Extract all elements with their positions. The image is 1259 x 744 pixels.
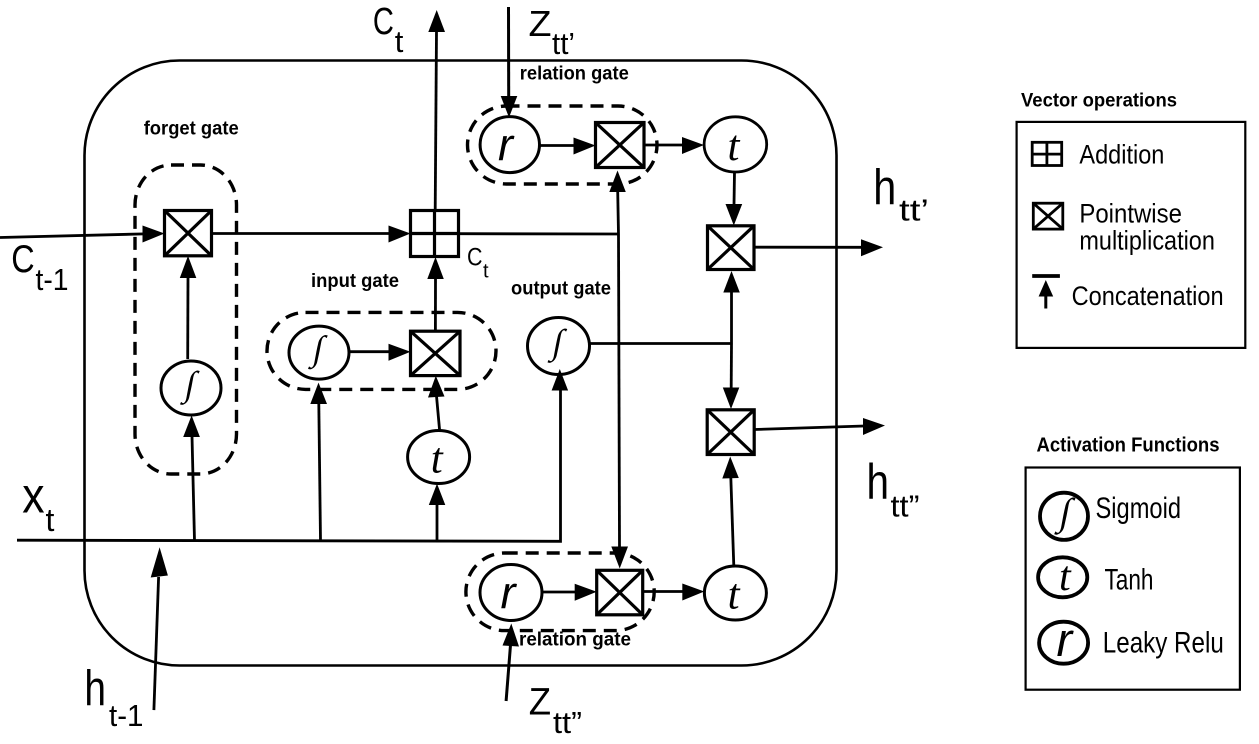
svg-text:tt”: tt” [553, 705, 582, 740]
svg-text:t: t [46, 502, 55, 538]
svg-text:r: r [498, 119, 515, 170]
wire c(t-1) input [0, 226, 165, 243]
svg-text:tt”: tt” [891, 489, 920, 524]
wire xt to input-sigmoid [310, 383, 327, 541]
leaky relu circle r2 [480, 565, 542, 621]
wire h-mult2 output [754, 418, 885, 435]
svg-text:output gate: output gate [511, 278, 611, 299]
svg-text:t-1: t-1 [109, 698, 144, 733]
svg-text:Leaky Relu: Leaky Relu [1103, 627, 1224, 660]
wire output sigmoid to right vertical [590, 342, 732, 345]
wire adder to node junction [459, 232, 619, 235]
input sigmoid circle [289, 326, 349, 379]
relation gate 2 dashed capsule [466, 553, 654, 631]
cell border [85, 61, 837, 666]
svg-text:tt’: tt’ [899, 193, 929, 228]
input gate multiplier [411, 331, 461, 375]
tanh circle input branch [408, 431, 470, 484]
adder node [411, 211, 459, 257]
svg-text:Z: Z [529, 3, 552, 44]
wire h-mult1 output [754, 239, 883, 256]
svg-text:r: r [501, 567, 518, 618]
legend pointwise icon [1033, 203, 1063, 229]
svg-text:t: t [395, 24, 404, 59]
svg-text:t: t [728, 572, 741, 619]
wire sigmoid to forget-mult [180, 256, 197, 359]
output sigmoid circle [528, 318, 590, 375]
svg-text:Vector operations: Vector operations [1021, 90, 1177, 112]
svg-text:multiplication: multiplication [1079, 225, 1215, 255]
leaky relu circle r1 [480, 117, 539, 173]
svg-text:tt’: tt’ [552, 26, 575, 61]
svg-text:h: h [873, 160, 896, 216]
svg-text:Addition: Addition [1079, 140, 1164, 170]
svg-text:t: t [728, 123, 741, 170]
wire tanh down to h-mult1 [726, 172, 743, 226]
legend addition icon [1032, 142, 1062, 165]
svg-text:relation gate: relation gate [519, 629, 631, 650]
svg-text:C: C [373, 1, 394, 43]
wire rel2-mult to tanh2 [643, 584, 705, 601]
legend leaky relu icon [1039, 622, 1088, 664]
svg-text:Concatenation: Concatenation [1072, 281, 1224, 311]
svg-text:t-1: t-1 [36, 262, 69, 297]
legend: activation functions box [1026, 468, 1240, 690]
svg-text:t: t [1059, 554, 1072, 600]
svg-text:t: t [483, 261, 489, 283]
wire input-sigmoid to input-mult [349, 344, 411, 361]
node junction vertical wire x=619 [609, 171, 628, 569]
legend: vector operations box [1017, 122, 1246, 348]
svg-text:forget gate: forget gate [144, 118, 239, 139]
h multiplier 1 [708, 226, 755, 270]
svg-text:Z: Z [529, 681, 551, 723]
wire tanh2 up to h-mult2 [722, 457, 739, 567]
wire r2 to rel2-mult [542, 584, 597, 601]
wire Z_tt' input [501, 7, 518, 118]
legend concatenation icon [1032, 276, 1060, 309]
svg-text:Sigmoid: Sigmoid [1096, 492, 1182, 525]
legend sigmoid icon [1040, 493, 1088, 540]
svg-text:r: r [1057, 613, 1075, 666]
tanh circle top [704, 117, 767, 172]
svg-text:h: h [867, 454, 890, 510]
wire rel1-mult to tanh t1 [644, 137, 704, 154]
h multiplier 2 [707, 410, 754, 455]
wire tanh to input-mult [428, 376, 445, 431]
svg-text:relation gate: relation gate [520, 64, 629, 85]
wire input-mult to adder [427, 257, 444, 331]
svg-text:Activation Functions: Activation Functions [1037, 434, 1220, 457]
svg-text:input gate: input gate [311, 271, 399, 292]
wire r1 to rel1-mult [540, 138, 596, 155]
wire adder up to Ct output [428, 10, 445, 211]
tanh circle bottom [704, 566, 766, 620]
svg-text:x: x [22, 468, 44, 524]
forget sigmoid circle [161, 361, 221, 415]
wire right vertical up to h-mult1 and down to h-mult2 [723, 271, 740, 409]
wire Z_tt'' input [503, 624, 520, 702]
relation gate 2 multiplier [597, 570, 643, 615]
svg-text:C: C [11, 238, 34, 281]
forget gate multiplier [165, 211, 212, 256]
relation gate 1 multiplier [596, 123, 645, 168]
input gate dashed capsule [267, 312, 496, 389]
wire forget-mult to adder [212, 226, 411, 243]
wire xt to forget sigmoid [183, 415, 200, 540]
relation gate 1 dashed capsule [468, 106, 658, 184]
forget gate dashed capsule [135, 165, 237, 474]
legend tanh icon [1038, 557, 1087, 597]
svg-text:C: C [467, 244, 483, 272]
wire x_t [17, 369, 568, 541]
wire xt to tanh [429, 484, 446, 541]
wire h_t-1 input [151, 547, 168, 710]
svg-text:h: h [84, 660, 106, 716]
svg-text:Pointwise: Pointwise [1079, 199, 1182, 229]
svg-text:Tanh: Tanh [1105, 564, 1154, 597]
svg-text:t: t [431, 436, 444, 483]
